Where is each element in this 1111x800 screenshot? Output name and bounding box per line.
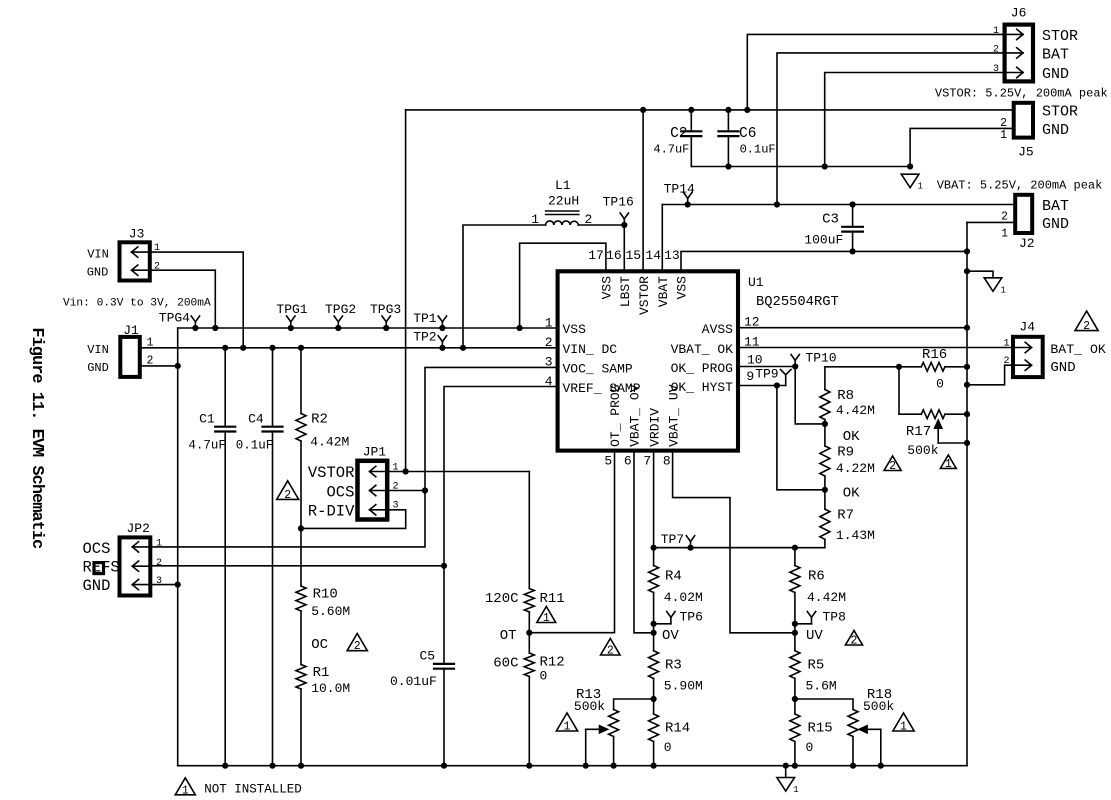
svg-text:1: 1: [1001, 227, 1008, 240]
net label OK lower: [843, 486, 860, 502]
svg-text:VSS: VSS: [600, 276, 615, 300]
svg-text:JP2: JP2: [127, 521, 150, 536]
svg-text:0.01uF: 0.01uF: [390, 674, 437, 689]
node J4.2/rail: [964, 382, 970, 388]
wire OT node to U1 pin5: [529, 451, 614, 633]
node R5/R15: [792, 696, 798, 702]
wire VIN_DC bus: [140, 347, 558, 349]
svg-text:R8: R8: [837, 388, 854, 404]
svg-text:1: 1: [182, 784, 189, 797]
svg-text:4.42M: 4.42M: [836, 403, 875, 418]
wire U1 pin15 VSTOR: [642, 110, 644, 271]
svg-text:2: 2: [284, 489, 291, 502]
wire R14 to GND bus: [653, 742, 655, 766]
node C4 top: [269, 345, 275, 351]
svg-text:R2: R2: [311, 411, 328, 427]
node gnd stub: [964, 268, 970, 274]
svg-text:0: 0: [806, 740, 814, 755]
test point TPG1: [276, 302, 307, 328]
svg-text:9: 9: [746, 369, 754, 384]
wire R4 to OV: [653, 593, 655, 651]
wire U1 pin4 VREF_SAMP: [444, 387, 558, 566]
resistor R7: [820, 508, 875, 543]
node TPG4: [192, 325, 198, 331]
node R18 bottom: [850, 763, 856, 769]
svg-text:R-DIV: R-DIV: [308, 502, 355, 520]
wire bottom gnd stub: [785, 766, 787, 778]
wire R16 left lead: [899, 366, 921, 368]
svg-text:2: 2: [156, 558, 162, 569]
wire cap bottom bus: [691, 166, 910, 168]
svg-text:1: 1: [1000, 129, 1007, 142]
node C4 bottom: [269, 763, 275, 769]
node R12 bottom: [526, 763, 532, 769]
connector J3: [87, 227, 160, 281]
svg-text:OK: OK: [843, 429, 860, 445]
note triangle 2 near OV: [601, 639, 620, 658]
svg-text:GND: GND: [87, 266, 109, 280]
svg-text:AVSS: AVSS: [702, 322, 733, 337]
svg-text:VIN: VIN: [87, 343, 109, 357]
wire R18 wiper: [859, 726, 881, 766]
svg-text:2: 2: [545, 335, 553, 350]
note triangle 1 near R17: [940, 455, 956, 471]
wire R13 top: [614, 699, 654, 710]
svg-text:R9: R9: [837, 445, 854, 461]
node TP9: [774, 382, 780, 388]
wire R6 to UV: [794, 593, 796, 651]
wire OK_HYST to R9/R7 node: [777, 386, 825, 490]
connector J2: [1001, 195, 1069, 251]
node J3.1/VIN_DC: [240, 345, 246, 351]
svg-text:4.42M: 4.42M: [807, 590, 846, 605]
wire R2 to R10: [300, 441, 302, 586]
wire TP6 stem: [654, 623, 671, 625]
capacitor C2: [653, 110, 701, 167]
wire U1 pin8 VBAT_UV: [673, 451, 795, 633]
svg-text:C4: C4: [248, 412, 264, 427]
capacitor C5: [390, 566, 454, 766]
svg-text:2: 2: [993, 44, 999, 55]
resistor R17 (potentiometer): [906, 410, 945, 458]
net label UV: [806, 628, 823, 644]
svg-text:5: 5: [604, 454, 612, 469]
svg-text:10: 10: [747, 352, 763, 367]
node R17/rail: [964, 411, 970, 417]
wire R9-R7: [824, 476, 826, 509]
wire L1 pin2 to LBST node: [578, 224, 624, 226]
node TP1: [439, 325, 445, 331]
svg-text:GND: GND: [83, 577, 111, 595]
svg-text:1.43M: 1.43M: [836, 528, 875, 543]
wire U1 pin14 VBAT: [661, 205, 663, 272]
wire U1 pin6 VBAT_OV: [634, 451, 654, 633]
wire U1 pin7 VRDIV: [653, 451, 655, 548]
node TP7: [687, 545, 693, 551]
svg-text:120C: 120C: [485, 591, 519, 607]
svg-text:STOR: STOR: [1042, 103, 1078, 120]
node TP10: [792, 363, 798, 369]
svg-text:C1: C1: [199, 412, 215, 427]
resistor R13 (potentiometer): [574, 687, 619, 736]
svg-text:TPG2: TPG2: [325, 302, 356, 317]
wire JP1 pin3 R-DIV: [301, 510, 406, 529]
wire R17 left lead: [899, 413, 921, 415]
svg-text:4.02M: 4.02M: [664, 590, 703, 605]
connector J1: [87, 323, 153, 377]
wire R10 to R1: [300, 611, 302, 665]
svg-text:R14: R14: [665, 721, 690, 737]
svg-text:R7: R7: [837, 508, 854, 524]
resistor R10: [296, 586, 350, 619]
svg-text:GND: GND: [1042, 122, 1069, 139]
svg-text:1: 1: [564, 721, 571, 734]
wire J6 pin1 to VSTOR bus: [747, 34, 1004, 110]
resistor R12: [493, 633, 564, 684]
resistor R5: [790, 651, 837, 694]
svg-text:VIN_ DC: VIN_ DC: [563, 342, 618, 357]
node OK lower: [822, 487, 828, 493]
svg-text:10.0M: 10.0M: [311, 681, 350, 696]
node pin17/VSS bus: [517, 325, 523, 331]
svg-text:1: 1: [993, 26, 999, 37]
svg-text:NOT INSTALLED: NOT INSTALLED: [204, 783, 302, 797]
node bottom gnd: [783, 763, 789, 769]
node R14 bottom: [651, 763, 657, 769]
svg-text:OT_ PROG: OT_ PROG: [608, 384, 623, 446]
resistor R9: [820, 445, 875, 477]
node JP1.2/OCS: [422, 487, 428, 493]
node C1 top: [222, 345, 228, 351]
svg-text:TP10: TP10: [805, 350, 836, 365]
svg-text:17: 17: [588, 248, 604, 263]
node TPG1: [288, 325, 294, 331]
node R-DIV tap: [298, 525, 304, 531]
node J5.1/GND: [907, 163, 913, 169]
svg-text:TP1: TP1: [413, 311, 437, 326]
svg-text:VIN: VIN: [87, 248, 109, 262]
capacitor C1: [188, 348, 235, 766]
wire J3 pin2 to VSS bus: [150, 270, 216, 328]
node TP6: [651, 621, 657, 627]
capacitor C6: [718, 110, 775, 167]
svg-text:TP6: TP6: [680, 609, 703, 624]
svg-text:OK_ PROG: OK_ PROG: [671, 361, 733, 376]
connector J6: [993, 6, 1078, 83]
ground right: [984, 278, 1006, 296]
svg-text:C5: C5: [420, 649, 436, 664]
wire OCS net (JP2.1 to U1 VOC_SAMP): [150, 367, 557, 547]
node R1 bottom: [298, 763, 304, 769]
svg-text:VSTOR: 5.25V, 200mA peak: VSTOR: 5.25V, 200mA peak: [935, 87, 1108, 101]
svg-text:500k: 500k: [907, 443, 938, 458]
note triangle 2 near J4: [1075, 311, 1098, 333]
resistor R8: [820, 388, 875, 419]
svg-text:1: 1: [1003, 339, 1009, 350]
connector JP1: [308, 445, 399, 521]
test point TP16: [603, 195, 634, 226]
svg-text:TPG1: TPG1: [276, 302, 307, 317]
node R15 bottom: [792, 763, 798, 769]
svg-text:LBST: LBST: [618, 276, 633, 307]
svg-text:GND: GND: [87, 361, 109, 375]
resistor R3: [649, 651, 703, 694]
note NOT INSTALLED: [204, 783, 302, 797]
wire R15 to GND bus: [794, 742, 796, 766]
svg-text:0: 0: [664, 740, 672, 755]
svg-text:100uF: 100uF: [804, 232, 843, 247]
wire bottom GND bus: [178, 765, 967, 767]
wire JP1.1 to R11: [528, 472, 530, 589]
svg-text:R6: R6: [808, 569, 825, 585]
svg-text:1: 1: [945, 458, 952, 471]
node J1.2/GND: [175, 363, 181, 369]
svg-text:R5: R5: [808, 657, 825, 673]
svg-text:C2: C2: [670, 126, 687, 142]
inductor L1: [531, 178, 592, 227]
node R16 left: [896, 364, 902, 370]
svg-text:60C: 60C: [493, 656, 518, 672]
wire J1 pin2 to GND rail: [140, 365, 178, 367]
node OK upper: [822, 421, 828, 427]
note triangle 1 near R13: [556, 713, 577, 734]
svg-text:C6: C6: [739, 126, 756, 142]
svg-text:8: 8: [663, 454, 671, 469]
wire U1 pin17 VSS: [520, 243, 606, 328]
capacitor C3: [804, 205, 863, 252]
test point TPG4: [159, 311, 200, 329]
wire R13 wiper: [586, 726, 608, 766]
svg-text:6: 6: [624, 454, 632, 469]
svg-text:TP7: TP7: [661, 532, 684, 547]
node OT: [526, 630, 532, 636]
node LBST: [621, 222, 627, 228]
svg-text:OCS: OCS: [326, 483, 354, 501]
node VRDIV/R4: [651, 545, 657, 551]
figure caption: [27, 327, 46, 549]
wire J2 pin1 to right rail: [967, 221, 1015, 223]
svg-text:3: 3: [993, 64, 999, 75]
node TPG2: [335, 325, 341, 331]
svg-text:R4: R4: [665, 569, 682, 585]
svg-text:VSS: VSS: [675, 276, 690, 300]
wire R13 bottom: [613, 737, 615, 766]
wire U1 pin13 VSS: [681, 251, 967, 271]
svg-text:R11: R11: [540, 591, 565, 607]
resistor R11: [485, 589, 565, 613]
node R18 wiper/bus: [878, 763, 884, 769]
node pin13/right rail: [964, 248, 970, 254]
note VSTOR rating: [935, 87, 1108, 101]
svg-text:L1: L1: [555, 178, 571, 193]
node R6 top: [792, 545, 798, 551]
svg-text:TP8: TP8: [823, 609, 846, 624]
wire VSTOR rail: [405, 110, 407, 472]
svg-text:BAT: BAT: [1042, 46, 1069, 63]
wire U1 pin12 AVSS: [738, 327, 967, 329]
svg-text:5.90M: 5.90M: [664, 679, 703, 694]
svg-text:BAT: BAT: [1042, 198, 1069, 215]
resistor R14: [649, 714, 691, 755]
svg-text:TP2: TP2: [413, 329, 436, 344]
test point TP7: [661, 532, 695, 548]
test point TPG2: [325, 302, 356, 328]
svg-text:2: 2: [1083, 320, 1090, 333]
svg-text:VBAT_ OK: VBAT_ OK: [671, 342, 734, 357]
connector J5: [1000, 103, 1078, 160]
svg-text:1: 1: [900, 721, 907, 734]
resistor R18 (potentiometer): [848, 687, 894, 736]
wire R11 to OT node: [528, 612, 530, 633]
node R17 wiper/rail: [964, 440, 970, 446]
svg-text:J3: J3: [129, 227, 145, 242]
node pin15/VSTOR bus: [640, 107, 646, 113]
svg-text:1: 1: [793, 785, 798, 795]
svg-text:1: 1: [1001, 285, 1006, 295]
test point TP1: [413, 311, 446, 328]
wire VSS/TPG bus: [178, 327, 558, 329]
wire R18 bottom: [852, 737, 854, 766]
wire R8-R9: [824, 420, 826, 446]
svg-text:R10: R10: [313, 587, 338, 603]
svg-text:2: 2: [607, 645, 614, 658]
node C6 top: [725, 107, 731, 113]
wire L1 pin1 to VIN_DC: [463, 225, 546, 348]
svg-text:4.42M: 4.42M: [310, 434, 349, 449]
svg-text:2: 2: [354, 640, 361, 653]
svg-text:J6: J6: [1011, 6, 1027, 21]
node C3 bottom: [850, 248, 856, 254]
wire left GND rail: [177, 328, 179, 766]
wire right GND rail: [966, 222, 968, 765]
wire R5 to R15: [794, 679, 796, 715]
test point TP2: [413, 329, 446, 347]
svg-text:J2: J2: [1019, 236, 1035, 251]
node VSTOR rail / JP1.1: [403, 468, 409, 474]
svg-text:J5: J5: [1018, 144, 1034, 159]
node C6 bottom: [725, 163, 731, 169]
svg-text:R1: R1: [313, 665, 330, 681]
node TP2: [439, 345, 445, 351]
svg-text:VSS: VSS: [563, 322, 587, 337]
svg-text:1: 1: [545, 316, 553, 331]
wire J6 pin3 to GND: [825, 73, 1004, 167]
net label OC: [311, 637, 328, 653]
svg-text:1: 1: [918, 182, 923, 192]
svg-text:TP16: TP16: [603, 195, 634, 210]
wire R16-R17 branch: [898, 367, 900, 414]
node C1 bottom: [222, 763, 228, 769]
ground bottom: [777, 778, 799, 796]
svg-text:R3: R3: [665, 657, 682, 673]
note triangle 2 near OC: [347, 634, 367, 654]
note triangle 1 legend: [175, 778, 195, 798]
svg-text:TPG3: TPG3: [370, 302, 401, 317]
svg-text:4.7uF: 4.7uF: [188, 438, 226, 452]
svg-text:1: 1: [543, 612, 550, 625]
svg-text:C3: C3: [822, 211, 839, 227]
wire R17 wiper: [935, 420, 967, 443]
node R3/R14: [651, 696, 657, 702]
svg-text:0.1uF: 0.1uF: [740, 143, 776, 157]
note triangle 2 near UV: [845, 631, 862, 648]
svg-text:VRDIV: VRDIV: [647, 408, 662, 447]
svg-text:13: 13: [664, 248, 680, 263]
svg-text:VOC_ SAMP: VOC_ SAMP: [563, 362, 633, 377]
svg-text:Figure 11. EVM Schematic: Figure 11. EVM Schematic: [27, 327, 46, 549]
node C2 top: [688, 107, 694, 113]
test point TP10: [791, 350, 837, 366]
node JP2.3/GND: [175, 582, 181, 588]
svg-text:J1: J1: [123, 323, 139, 338]
svg-text:4.7uF: 4.7uF: [653, 143, 689, 157]
wire R12 to GND bus: [528, 677, 530, 766]
test point TP6: [667, 609, 703, 624]
node C3 top: [850, 201, 856, 207]
node TP8: [792, 621, 798, 627]
wire J5 pin1 to GND: [910, 128, 1014, 166]
wire R3 to R14: [653, 679, 655, 715]
svg-text:OCS: OCS: [83, 540, 111, 558]
svg-text:VBAT: 5.25V, 200mA peak: VBAT: 5.25V, 200mA peak: [937, 178, 1103, 192]
svg-text:2: 2: [851, 635, 858, 648]
svg-text:3: 3: [545, 355, 553, 370]
ground J5: [901, 174, 923, 192]
svg-text:TP14: TP14: [664, 181, 695, 196]
svg-text:14: 14: [645, 248, 661, 263]
svg-text:0.1uF: 0.1uF: [236, 438, 274, 452]
svg-text:R15: R15: [808, 721, 833, 737]
wire R16 right lead: [945, 366, 967, 368]
node REFS junction: [441, 563, 447, 569]
test point TP14: [664, 181, 695, 204]
resistor R15: [790, 714, 833, 755]
node AVSS/rail: [964, 325, 970, 331]
note triangle 1 below R11: [537, 607, 556, 626]
net label OK upper: [843, 429, 860, 445]
svg-text:JP1: JP1: [363, 445, 387, 460]
node C5 bottom: [441, 763, 447, 769]
svg-text:16: 16: [606, 248, 622, 263]
wire U1 pin10 OK_PROG: [738, 366, 795, 368]
note triangle 2 near R9: [884, 456, 901, 473]
resistor R16: [921, 347, 947, 392]
svg-text:4: 4: [545, 374, 553, 389]
svg-text:4.22M: 4.22M: [836, 461, 875, 476]
note triangle 1 near R18: [893, 713, 914, 734]
svg-text:OT: OT: [500, 628, 517, 644]
note Vin range: [63, 298, 211, 310]
svg-text:VSTOR: VSTOR: [637, 276, 652, 315]
wire U1 pin11 VBAT_OK to J4: [738, 347, 1013, 349]
resistor R2: [296, 348, 349, 450]
wire R7 bottom to VRDIV: [654, 539, 825, 547]
svg-text:0: 0: [540, 669, 548, 684]
node J6.2/VBAT: [774, 201, 780, 207]
node J3.2/VSS: [212, 325, 218, 331]
svg-text:TPG4: TPG4: [159, 311, 190, 326]
wire JP1 pin2 to OCS net: [387, 490, 425, 492]
wire J3 pin1 to VIN_DC: [150, 252, 243, 348]
node UV: [792, 630, 798, 636]
wire R8 top: [825, 367, 899, 390]
net label OV: [662, 628, 679, 644]
svg-text:OK: OK: [843, 486, 860, 502]
wire JP1 pin1 to VSTOR rail and R11: [387, 471, 529, 473]
svg-text:VBAT: VBAT: [656, 276, 671, 307]
connector JP2: [83, 521, 163, 596]
svg-text:1: 1: [147, 336, 154, 349]
